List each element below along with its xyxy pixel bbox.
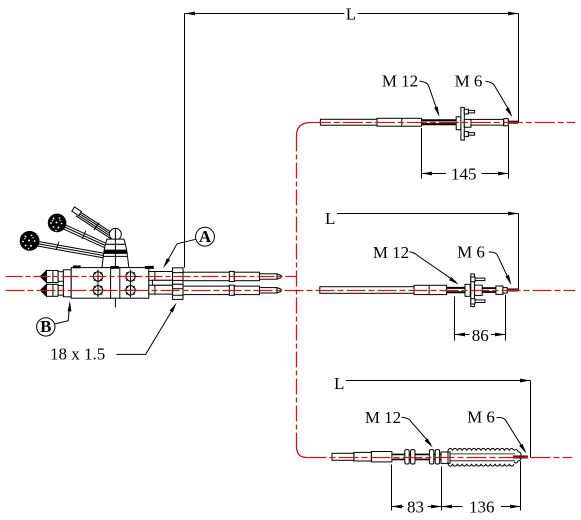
label M12 (detail 1) (382, 72, 418, 91)
extension line right of L dimension / detail 1 tip (518, 14, 520, 123)
detail3 collar ring pair 1 (405, 450, 415, 464)
label thread 18 x 1.5 (50, 345, 105, 364)
gland adapter plate (63, 270, 71, 297)
dimension L (detail 2) label (325, 209, 335, 228)
extension line left of L dimension (184, 14, 186, 268)
svg-text:86: 86 (472, 326, 489, 345)
head centerline (114, 228, 116, 307)
bolt B3 (91, 283, 105, 297)
detail2 M6 tip (507, 289, 518, 292)
svg-text:M 12: M 12 (382, 72, 418, 91)
dimension 83 line and arrows (392, 505, 442, 509)
label M6 (detail 2) (457, 242, 485, 261)
dimension L (detail 1) label (346, 5, 356, 24)
leader M6 detail1 (486, 81, 513, 117)
compression nut row1 (173, 268, 183, 285)
svg-text:A: A (199, 227, 212, 246)
detail1 rear collar (504, 119, 509, 126)
detail1 bottom bolt (464, 132, 474, 137)
wire centerline detail 1 (red dash-dot) (311, 122, 575, 124)
bolt B4 (124, 283, 138, 297)
probe stem row1 (183, 271, 281, 281)
body block (71, 268, 149, 299)
detail3 tip tube (332, 453, 354, 460)
detail2 rear cylinder (496, 286, 503, 294)
head cone tier 3 (102, 253, 129, 267)
dimension L (detail 3) label (334, 374, 344, 393)
detail3 corrugated flexible hose (448, 448, 521, 466)
label M6 (detail 3) (467, 408, 495, 427)
balloon label B (37, 317, 55, 336)
detail2 collar section (414, 285, 447, 294)
body top tab left (73, 266, 80, 268)
dimension 145 line and arrows (422, 172, 509, 176)
bolt B1 (91, 270, 105, 284)
detail1 M12 threaded stem (422, 120, 457, 124)
detail2 M12 threaded stem (447, 288, 466, 292)
leader 18 x 1.5 (116, 303, 176, 355)
dimension 86 line and arrows (455, 333, 506, 337)
detail1 collar section (377, 118, 422, 126)
detail1 flange back nut (464, 119, 471, 127)
gland cap row2 (40, 284, 63, 296)
adapter tube row1 (149, 272, 173, 281)
cable 3 tick (56, 242, 59, 250)
bolt B2 (124, 270, 138, 284)
adapter tube row2 (149, 285, 173, 294)
label M6 (detail 1) (455, 72, 483, 91)
detail2 top bolt (471, 277, 485, 282)
wire centerline row1 (red dash-dot, upper probe) (6, 276, 297, 278)
svg-text:M 6: M 6 (467, 408, 495, 427)
label M12 (detail 2) (373, 243, 409, 262)
cable 1 tick (94, 223, 99, 231)
label M12 (detail 3) (365, 408, 401, 427)
leader M6 detail3 (497, 418, 527, 454)
cable 2 (middle) (63, 224, 109, 248)
extension line right of detail 2 L dimension (518, 214, 520, 290)
svg-text:M 6: M 6 (455, 72, 483, 91)
detail3 hose end block (441, 452, 450, 463)
leader M6 detail2 (489, 252, 512, 285)
wire centerline detail 3 (red dash-dot) (307, 457, 573, 459)
leader M12 detail3 (402, 417, 433, 447)
dimension 136 label (469, 497, 495, 516)
svg-text:L: L (325, 209, 335, 228)
compression nut row2 (173, 284, 183, 299)
body top tab right (145, 266, 153, 268)
detail2 rear stem (482, 288, 496, 292)
detail1 top bolt (464, 109, 474, 114)
probe stem row2 (183, 285, 281, 295)
svg-text:L: L (334, 374, 344, 393)
dimension 83 label (407, 497, 424, 516)
detail1 hex nut (456, 117, 461, 130)
wire red vertical connector line (296, 136, 298, 447)
svg-text:M 12: M 12 (365, 408, 401, 427)
cable 1 (top, open ended) (72, 207, 114, 239)
leader B (55, 301, 72, 324)
dimension 83/136 extension lines (392, 461, 521, 511)
detail1 flange plate (461, 107, 464, 140)
dimension 136 line and arrows (442, 505, 521, 509)
detail3 third tube (371, 452, 392, 462)
dimension L (detail 2) line (337, 212, 519, 216)
cable 3 (bottom) (36, 241, 104, 258)
detail1 sheath tube (320, 119, 377, 125)
gland cap row1 (40, 271, 63, 283)
head cone black band (104, 250, 127, 253)
head cone tier 1 (105, 239, 125, 244)
detail2 rear collar (503, 288, 507, 294)
dimension 86 extension lines (455, 295, 506, 341)
body top tab center (111, 267, 118, 269)
svg-text:83: 83 (407, 497, 424, 516)
detail2 hex nut (465, 284, 470, 296)
detail1 M6 tip (508, 121, 518, 124)
svg-text:M 12: M 12 (373, 243, 409, 262)
leader A (163, 239, 196, 268)
dimension 145 label (451, 165, 477, 184)
dimension 86 label (472, 326, 489, 345)
detail2 sheath tube (320, 287, 414, 294)
leader M12 detail1 (420, 81, 440, 117)
detail2 flange plate (471, 274, 475, 307)
detail3 thin stem (392, 454, 441, 459)
detail3 collar ring pair 2 (429, 450, 439, 464)
detail1 rear stem tube (471, 119, 504, 125)
wire red bottom corner bend (297, 446, 307, 458)
svg-text:136: 136 (469, 497, 495, 516)
detail2 bottom bolt (471, 299, 485, 304)
wire centerline row2 (red dash-dot, lower probe through detail 2) (6, 290, 576, 292)
detail2 flange back nut (475, 285, 483, 295)
dimension L (detail 1) horizontal line (185, 12, 519, 16)
head dome (110, 228, 122, 240)
cable 2 tick (82, 231, 86, 239)
svg-text:145: 145 (451, 165, 477, 184)
svg-text:L: L (346, 5, 356, 24)
svg-text:M 6: M 6 (457, 242, 485, 261)
wire red top corner bend (297, 123, 311, 137)
dimension L (detail 3) line (346, 379, 531, 383)
detail3 second tube (354, 452, 372, 461)
leader M12 detail2 (410, 252, 459, 285)
svg-text:B: B (40, 317, 51, 336)
balloon label A (196, 227, 215, 246)
svg-text:18 x 1.5: 18 x 1.5 (50, 345, 105, 364)
dimension 145 extension lines (422, 126, 509, 179)
adapter middle web (152, 280, 172, 285)
connector plug P1 (knurled ball) (20, 232, 39, 251)
connector plug P2 (knurled ball) (48, 214, 66, 232)
extension line right of detail 3 L dimension (530, 381, 532, 458)
detail3 M6 tip (513, 456, 528, 459)
head cone tier 2 (104, 244, 127, 250)
